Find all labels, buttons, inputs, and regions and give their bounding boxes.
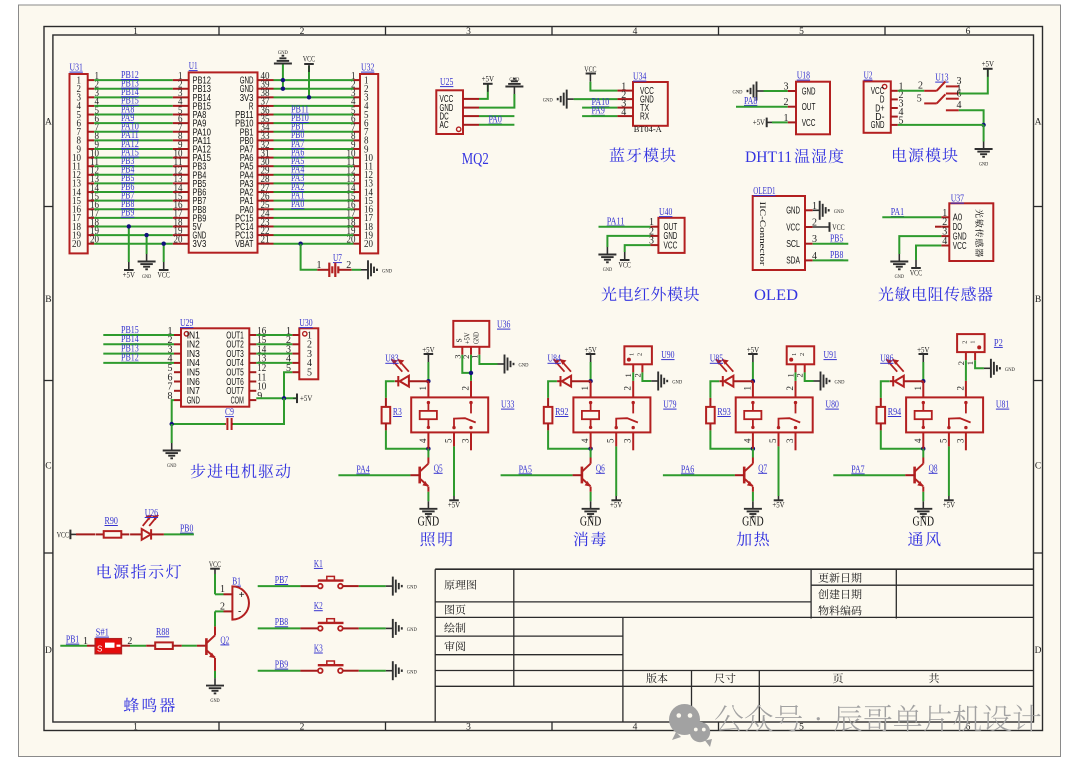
U91 pin right xyxy=(804,364,806,372)
wire xyxy=(916,246,941,261)
resistor R90 xyxy=(96,533,104,535)
wire xyxy=(462,355,471,373)
wire xyxy=(274,105,354,107)
svg-text:1: 1 xyxy=(133,27,138,37)
wire xyxy=(258,585,301,587)
transistor Q6 xyxy=(581,467,584,484)
wire xyxy=(94,139,173,141)
wire xyxy=(501,474,573,476)
wire xyxy=(274,122,354,124)
relay pin 5 xyxy=(453,432,455,446)
connector U32 xyxy=(360,74,378,253)
relay pin 2 xyxy=(470,381,472,398)
svg-text:B: B xyxy=(45,295,51,305)
wire xyxy=(922,492,924,502)
svg-text:4: 4 xyxy=(942,236,947,247)
relay pin 5 xyxy=(778,432,780,446)
wire xyxy=(470,355,472,381)
power +5V xyxy=(453,496,455,500)
svg-text:4: 4 xyxy=(633,723,638,733)
wire xyxy=(427,449,429,458)
ground xyxy=(922,501,924,509)
resistor R3 xyxy=(385,398,387,407)
svg-text:GND: GND xyxy=(519,363,529,369)
wire xyxy=(256,343,292,345)
caption 通风 xyxy=(908,532,940,547)
U29 pin stubs right xyxy=(249,334,256,336)
relay pin 3 xyxy=(965,432,967,450)
svg-text:1: 1 xyxy=(742,386,752,391)
wire xyxy=(274,208,354,210)
wire xyxy=(548,381,557,398)
wire xyxy=(899,236,941,254)
caption 步进电机驱动 xyxy=(191,464,291,479)
wire xyxy=(130,645,146,647)
svg-text:2: 2 xyxy=(785,386,795,391)
wire xyxy=(548,430,591,448)
wire xyxy=(128,226,130,262)
wire xyxy=(94,105,173,107)
svg-text:2: 2 xyxy=(220,601,225,612)
wire xyxy=(308,66,310,97)
stub pin2 xyxy=(935,226,941,228)
resistor R92 xyxy=(547,398,549,407)
caption 消毒 xyxy=(574,532,606,547)
svg-text:6: 6 xyxy=(966,27,971,37)
wire xyxy=(214,671,216,678)
wire xyxy=(778,446,780,496)
svg-text:VBAT: VBAT xyxy=(235,238,254,250)
svg-text:+5V: +5V xyxy=(610,501,622,510)
ground GND xyxy=(813,209,820,211)
wire xyxy=(590,492,592,502)
U37 pin stubs xyxy=(941,216,949,218)
U40 pin stubs xyxy=(650,226,658,228)
wire xyxy=(795,372,797,380)
relay U80 xyxy=(736,397,813,432)
wire xyxy=(274,79,354,81)
ground GND xyxy=(361,269,368,271)
wire xyxy=(752,449,754,458)
junction xyxy=(144,233,148,237)
ground GND xyxy=(386,627,393,629)
wire xyxy=(975,360,984,368)
connector U2 xyxy=(864,81,891,132)
wire xyxy=(898,90,924,92)
transistor Q2 xyxy=(205,638,208,655)
U36 pin 1 xyxy=(478,347,480,355)
svg-text:4: 4 xyxy=(418,438,428,443)
wire xyxy=(103,334,174,336)
svg-text:GND: GND xyxy=(835,380,845,386)
wire xyxy=(922,449,924,458)
wire xyxy=(274,243,354,245)
svg-text:GND: GND xyxy=(871,119,885,131)
wire xyxy=(94,191,173,193)
U34 pin stubs xyxy=(617,90,633,92)
svg-text:A: A xyxy=(45,118,52,128)
ground xyxy=(513,87,515,95)
wire xyxy=(338,474,410,476)
wire xyxy=(94,234,173,236)
wire xyxy=(607,236,650,247)
U1 pin stubs right xyxy=(258,79,274,81)
svg-text:RX: RX xyxy=(640,110,649,122)
wire xyxy=(479,84,488,99)
IC U34 (BT04-A) xyxy=(633,82,668,126)
svg-text:1: 1 xyxy=(629,353,636,356)
wire xyxy=(882,216,941,218)
wire xyxy=(752,362,754,381)
svg-text:GND: GND xyxy=(407,627,417,633)
resistor R88 xyxy=(146,645,155,647)
U91 pin left xyxy=(795,364,797,372)
relay pin 2 xyxy=(632,381,634,398)
wire xyxy=(94,225,173,227)
caption 电源模块 xyxy=(893,148,958,163)
pin1 marker xyxy=(457,127,461,131)
ground xyxy=(171,443,173,451)
transistor Q5 xyxy=(418,467,421,484)
wire xyxy=(215,593,224,595)
junction xyxy=(588,447,592,451)
wire xyxy=(94,96,173,98)
wire xyxy=(479,115,514,117)
caption 蓝牙模块 xyxy=(610,147,676,162)
U32 pin stubs xyxy=(354,79,361,81)
svg-text:5: 5 xyxy=(606,438,616,443)
pin1 marker xyxy=(184,332,188,336)
caption 光敏电阻传感器 xyxy=(879,287,993,302)
svg-text:3: 3 xyxy=(955,438,965,443)
svg-text:VCC: VCC xyxy=(953,240,967,252)
svg-text:2: 2 xyxy=(918,81,923,92)
pin1 marker xyxy=(303,332,307,336)
relay pin 3 xyxy=(632,432,634,450)
wire xyxy=(94,217,173,219)
svg-text:GND: GND xyxy=(672,380,682,386)
power +5V xyxy=(987,69,989,77)
svg-text:2: 2 xyxy=(346,260,351,271)
junction xyxy=(981,123,985,127)
svg-text:BT04-A: BT04-A xyxy=(634,124,663,134)
svg-text:2: 2 xyxy=(623,386,633,391)
junction xyxy=(281,78,285,82)
svg-text:+5V: +5V xyxy=(300,394,312,403)
svg-text:OUT: OUT xyxy=(802,101,816,113)
svg-text:4: 4 xyxy=(913,438,923,443)
wire xyxy=(284,372,292,398)
wire xyxy=(256,362,292,364)
svg-text:+5V: +5V xyxy=(422,345,434,354)
svg-text:2: 2 xyxy=(300,723,305,733)
wire xyxy=(94,200,173,202)
LED U85 xyxy=(722,376,724,386)
svg-text:+5V: +5V xyxy=(917,345,929,354)
ground GND xyxy=(814,380,821,382)
wire xyxy=(94,114,173,116)
wire xyxy=(922,362,924,381)
junction xyxy=(921,447,925,451)
svg-text:4: 4 xyxy=(621,107,626,118)
wire xyxy=(103,353,174,355)
U2 pin stubs xyxy=(891,90,898,92)
svg-text:3: 3 xyxy=(466,723,471,733)
connector P2 xyxy=(957,334,985,352)
power +5V xyxy=(487,84,489,92)
wire xyxy=(772,121,788,123)
wire xyxy=(582,107,617,109)
svg-text:VCC: VCC xyxy=(619,261,631,270)
wire xyxy=(274,88,354,90)
wire xyxy=(282,64,284,89)
relay U81 xyxy=(906,397,983,432)
ground xyxy=(427,501,429,509)
transistor Q8 xyxy=(913,467,916,484)
svg-text:IIC-Connector: IIC-Connector xyxy=(758,202,768,266)
ground GND xyxy=(651,380,658,382)
LED U84 xyxy=(560,376,562,386)
wire xyxy=(274,165,354,167)
power VCC xyxy=(915,260,917,268)
svg-text:2: 2 xyxy=(637,353,644,356)
lead xyxy=(76,533,95,535)
wire xyxy=(948,446,950,496)
P2 pin left xyxy=(965,352,967,360)
ground GND xyxy=(984,367,991,369)
junction xyxy=(426,379,430,383)
power VCC xyxy=(813,226,830,228)
svg-text:3: 3 xyxy=(623,438,633,443)
wire xyxy=(386,381,395,398)
wire xyxy=(214,611,216,626)
power VCC xyxy=(163,262,165,270)
svg-text:VCC: VCC xyxy=(57,530,69,539)
IC U1 xyxy=(189,72,258,252)
power VCC xyxy=(308,64,310,72)
wire xyxy=(574,98,618,100)
relay pin 1 xyxy=(922,381,924,397)
svg-text:VCC: VCC xyxy=(664,239,678,251)
U29 pin stubs left xyxy=(174,334,181,336)
relay pin 4 xyxy=(427,432,429,448)
wire xyxy=(94,165,173,167)
wire xyxy=(274,96,354,98)
wire xyxy=(274,225,354,227)
wire xyxy=(359,585,386,587)
svg-text:5: 5 xyxy=(938,438,948,443)
U1 pin stubs left xyxy=(173,79,189,81)
wire xyxy=(881,381,890,398)
svg-text:VCC: VCC xyxy=(910,269,922,278)
power +5V xyxy=(128,262,130,270)
svg-text:+5V: +5V xyxy=(753,118,765,127)
svg-text:B: B xyxy=(1035,295,1041,305)
caption 蜂鸣器 xyxy=(124,698,175,713)
wire xyxy=(274,191,354,193)
svg-text:VCC: VCC xyxy=(786,221,800,233)
svg-text:2: 2 xyxy=(461,386,471,391)
wire xyxy=(214,574,216,594)
wire xyxy=(805,372,814,381)
connector U30 xyxy=(299,328,318,379)
caption 加热 xyxy=(737,532,769,547)
wire xyxy=(599,226,651,228)
svg-text:9: 9 xyxy=(257,391,262,402)
connector U31 xyxy=(70,74,88,253)
svg-text:VCC: VCC xyxy=(209,560,221,569)
relay pin 1 xyxy=(427,381,429,397)
junction xyxy=(588,379,592,383)
svg-text:1: 1 xyxy=(317,260,322,271)
connector U90 xyxy=(624,346,652,364)
svg-text:3: 3 xyxy=(466,27,471,37)
relay U79 xyxy=(573,397,650,432)
wire xyxy=(590,82,617,91)
wire xyxy=(582,115,617,117)
svg-text:GND: GND xyxy=(733,90,743,96)
svg-text:GND: GND xyxy=(979,161,988,167)
junction xyxy=(298,241,302,245)
svg-text:+5V: +5V xyxy=(584,345,596,354)
wire xyxy=(965,360,967,381)
svg-text:GND: GND xyxy=(543,98,553,104)
watermark text xyxy=(715,705,1040,732)
svg-text:GND: GND xyxy=(407,585,417,591)
wire xyxy=(752,492,754,502)
svg-text:2: 2 xyxy=(955,386,965,391)
IC U18 (DHT11) xyxy=(796,82,830,135)
pin1 marker xyxy=(882,84,886,88)
relay pin 4 xyxy=(922,432,924,448)
relay pin 5 xyxy=(615,432,617,446)
U31 pin stubs xyxy=(88,79,95,81)
wire xyxy=(359,670,386,672)
wire xyxy=(427,492,429,502)
svg-text:2: 2 xyxy=(300,27,305,37)
relay pin 5 xyxy=(948,432,950,446)
svg-text:2: 2 xyxy=(799,353,806,356)
svg-text:GND: GND xyxy=(210,698,219,704)
svg-text:DHT11: DHT11 xyxy=(745,149,792,166)
wire xyxy=(479,94,514,108)
wire xyxy=(710,430,753,448)
watermark wechat icon xyxy=(669,704,712,747)
connector U91 xyxy=(787,346,815,364)
wire xyxy=(881,430,924,448)
resistor R94 xyxy=(880,398,882,407)
wire xyxy=(94,174,173,176)
svg-text:SCL: SCL xyxy=(786,238,800,250)
svg-text:5: 5 xyxy=(799,27,804,37)
LED U26 xyxy=(130,533,142,535)
power VCC xyxy=(624,252,626,260)
svg-text:1: 1 xyxy=(580,386,590,391)
wire xyxy=(164,533,194,535)
svg-text:1: 1 xyxy=(418,386,428,391)
U90 pin left xyxy=(632,364,634,372)
wire xyxy=(94,131,173,133)
relay pin 3 xyxy=(470,432,472,450)
wire xyxy=(94,122,173,124)
wire xyxy=(274,182,354,184)
wire xyxy=(359,627,386,629)
svg-text:GND: GND xyxy=(472,332,481,344)
wire xyxy=(274,174,354,176)
svg-text:C: C xyxy=(45,462,51,472)
wire xyxy=(898,124,984,126)
wire xyxy=(959,70,988,94)
wire xyxy=(182,645,197,647)
resistor R93 xyxy=(709,398,711,407)
wire xyxy=(764,90,788,92)
wire xyxy=(274,217,354,219)
svg-text:S: S xyxy=(97,645,102,654)
wire xyxy=(274,148,354,150)
wire xyxy=(301,244,318,270)
LED U83 xyxy=(397,376,399,386)
svg-text:5: 5 xyxy=(799,723,804,733)
junction xyxy=(281,87,285,91)
relay pin 3 xyxy=(795,432,797,450)
OLED1 pin stubs xyxy=(805,209,813,211)
wire xyxy=(274,157,354,159)
ground xyxy=(983,142,985,150)
svg-text:VCC: VCC xyxy=(832,223,844,232)
svg-text:+5V: +5V xyxy=(123,271,135,280)
svg-text:GND: GND xyxy=(742,514,764,529)
svg-text:GND: GND xyxy=(786,205,800,217)
wire xyxy=(215,610,224,612)
svg-text:20: 20 xyxy=(72,239,81,250)
wire xyxy=(94,157,173,159)
svg-text:5: 5 xyxy=(307,368,312,379)
LED U26 xyxy=(142,529,151,540)
wire xyxy=(274,131,354,133)
wire xyxy=(427,362,429,381)
svg-text:MQ2: MQ2 xyxy=(462,149,489,168)
wire xyxy=(590,449,592,458)
svg-text:VCC: VCC xyxy=(158,271,170,280)
transistor Q7 xyxy=(743,467,746,484)
ground xyxy=(752,501,754,509)
svg-text:1: 1 xyxy=(913,386,923,391)
ground GND xyxy=(282,63,284,65)
relay pin 2 xyxy=(795,381,797,398)
wire xyxy=(352,269,361,271)
LED U86 xyxy=(892,376,894,386)
wire xyxy=(274,114,354,116)
power +5V xyxy=(615,496,617,500)
wire xyxy=(94,243,173,245)
svg-text:2: 2 xyxy=(961,341,968,344)
svg-text:+5V: +5V xyxy=(448,501,460,510)
wire xyxy=(959,110,984,125)
svg-text:C: C xyxy=(1035,462,1041,472)
svg-text:+5V: +5V xyxy=(482,74,494,83)
svg-text:GND: GND xyxy=(913,514,935,529)
U36 pin 3 xyxy=(461,347,463,355)
power +5V xyxy=(948,496,950,500)
relay pin 1 xyxy=(590,381,592,397)
svg-text:GND: GND xyxy=(407,669,417,675)
wire xyxy=(386,430,429,448)
MQ2 pin stubs xyxy=(463,98,479,100)
wire xyxy=(103,362,174,364)
power +5V xyxy=(296,394,298,404)
svg-text:VCC: VCC xyxy=(802,117,816,129)
junction xyxy=(921,379,925,383)
